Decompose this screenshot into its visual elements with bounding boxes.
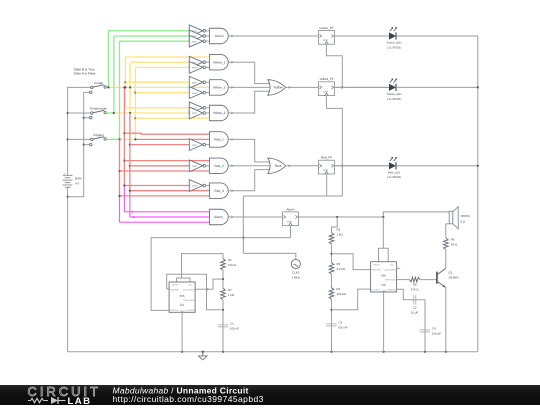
svg-text:Yellow_2: Yellow_2 bbox=[213, 86, 226, 90]
svg-text:100 kΩ: 100 kΩ bbox=[337, 292, 347, 296]
resistor R3 3.3k bbox=[329, 263, 334, 275]
wire: R7 node dogleg to U1 discharge bbox=[207, 279, 224, 289]
svg-text:R3: R3 bbox=[337, 262, 341, 266]
svg-text:R1: R1 bbox=[228, 258, 232, 262]
AND gate Red_2 bbox=[210, 158, 229, 174]
OR gate Red bbox=[268, 158, 286, 174]
pin arrows bbox=[231, 35, 234, 38]
svg-text:Red_LED: Red_LED bbox=[388, 170, 400, 174]
svg-text:U1: U1 bbox=[180, 303, 184, 307]
wire: Oxygen row bbox=[106, 138, 119, 140]
svg-text:C1: C1 bbox=[230, 321, 234, 325]
wire: Red_2 out bbox=[228, 165, 269, 167]
svg-text:R6: R6 bbox=[451, 237, 455, 241]
wire: R1 feed from U1 supply bbox=[182, 254, 224, 278]
svg-text:DISCHARGE: DISCHARGE bbox=[183, 289, 196, 292]
wire: R7 to C1 bbox=[222, 300, 224, 324]
svg-text:100 nF: 100 nF bbox=[230, 326, 239, 330]
svg-text:LTL-307EE: LTL-307EE bbox=[387, 175, 401, 179]
wire: U2 supply bridge bbox=[382, 217, 384, 248]
svg-text:2N3904: 2N3904 bbox=[449, 275, 460, 279]
flip-flop Red_FF bbox=[319, 160, 335, 174]
svg-text:CLK: CLK bbox=[323, 90, 328, 93]
svg-text:9 V: 9 V bbox=[75, 181, 79, 185]
svg-text:Red_1: Red_1 bbox=[214, 138, 224, 142]
wire: R8 to Q1 base bbox=[420, 279, 437, 281]
svg-text:State A is False: State A is False bbox=[74, 72, 96, 76]
AND gate Alarm_ bbox=[210, 209, 229, 225]
svg-text:Green: Green bbox=[215, 34, 224, 38]
inverters for Yellow_1 bbox=[189, 56, 203, 68]
wire: green verticals bbox=[107, 31, 109, 88]
wire: clk net down to 555 output bbox=[242, 196, 244, 253]
svg-text:NOT: NOT bbox=[192, 81, 197, 84]
capacitor C3 500nF bbox=[326, 323, 336, 325]
wire: magenta weave to Alarm gate bbox=[123, 186, 125, 212]
wire: U2 control to C2 bbox=[397, 289, 411, 300]
switch Temperature bbox=[91, 112, 93, 114]
AND gate Yellow_2 bbox=[210, 80, 229, 96]
svg-text:100 µF: 100 µF bbox=[432, 331, 441, 335]
wire: common feeds to switches bbox=[68, 112, 91, 114]
AND gate Yellow_3 bbox=[210, 105, 229, 121]
svg-text:1 MHz: 1 MHz bbox=[292, 276, 301, 280]
svg-text:Temperature: Temperature bbox=[90, 107, 108, 111]
svg-text:LAB: LAB bbox=[68, 395, 92, 405]
wire: R6 to speaker bbox=[445, 224, 447, 238]
AND gate Red_1 bbox=[210, 132, 229, 148]
wire: FF outputs to LEDs bbox=[335, 35, 390, 37]
svg-text:Yellow_LED: Yellow_LED bbox=[387, 92, 402, 96]
svg-text:Yellow_3: Yellow_3 bbox=[213, 111, 226, 115]
wire: bottom ground rail bbox=[68, 351, 478, 353]
svg-text:C3: C3 bbox=[339, 320, 343, 324]
svg-text:OUTPUT: OUTPUT bbox=[170, 309, 179, 312]
resistor R4 100k bbox=[329, 288, 334, 300]
clock source CLK1 1MHz bbox=[243, 253, 295, 259]
rail junction dots bbox=[181, 351, 183, 353]
inverter for Red_3 bbox=[189, 180, 203, 192]
switch Oxygen bbox=[91, 138, 93, 140]
svg-text:CONTROL: CONTROL bbox=[185, 309, 196, 312]
svg-text:Yellow: Yellow bbox=[273, 86, 283, 90]
LED Red_LED bbox=[335, 165, 390, 167]
wire: Yellow_1 out bbox=[228, 62, 270, 83]
resistor R7 1k bbox=[221, 288, 226, 300]
svg-text:470 Ω: 470 Ω bbox=[411, 287, 420, 291]
svg-text:NOT: NOT bbox=[192, 144, 197, 147]
capacitor C2 10uF bbox=[413, 295, 415, 304]
inverters for Yellow_2 bbox=[189, 76, 203, 88]
svg-text:NOT: NOT bbox=[192, 185, 197, 188]
svg-text:100 Ω: 100 Ω bbox=[228, 263, 237, 267]
flip-flop Alarm bbox=[283, 212, 299, 226]
wire: yellow weave bbox=[124, 57, 126, 108]
wire: Red_3 out bbox=[228, 170, 270, 191]
svg-text:THRESHOLD: THRESHOLD bbox=[385, 279, 398, 282]
wire: Yellow_2 out bbox=[228, 86, 269, 88]
wire: R4 to C3 bbox=[331, 299, 333, 323]
wire: Red_1 out bbox=[228, 139, 270, 162]
wire: R3 to R4 bbox=[331, 274, 333, 288]
svg-text:R2: R2 bbox=[337, 228, 341, 232]
svg-text:C2: C2 bbox=[413, 306, 417, 310]
svg-text:SPKR1: SPKR1 bbox=[461, 214, 471, 218]
wire: Red_FF clk chain bbox=[326, 174, 328, 196]
IC U1 555 timer bbox=[169, 282, 195, 312]
svg-text:THRESHOLD: THRESHOLD bbox=[183, 299, 196, 302]
svg-text:39 Ω: 39 Ω bbox=[451, 242, 458, 246]
svg-text:DISCHARGE: DISCHARGE bbox=[384, 268, 397, 271]
wire: red weave bbox=[123, 87, 125, 185]
svg-text:U2: U2 bbox=[382, 283, 386, 287]
svg-text:TRIGGER: TRIGGER bbox=[371, 268, 381, 271]
speaker SPKR1 bbox=[446, 223, 449, 225]
svg-text:Alarm_: Alarm_ bbox=[214, 215, 224, 219]
flip-flop Yellow_FF bbox=[319, 82, 335, 96]
svg-text:NOT: NOT bbox=[192, 112, 197, 115]
AND gate Green bbox=[210, 28, 229, 44]
wire: U1 supply bridge bbox=[177, 278, 191, 282]
svg-text:RESET: RESET bbox=[373, 263, 380, 266]
wire: trigger feed to U2 bbox=[332, 254, 371, 270]
svg-text:R8: R8 bbox=[413, 282, 417, 286]
wire: R2 to R3 bbox=[331, 244, 333, 263]
wire: Green_FF clk bbox=[326, 44, 342, 87]
wire: U2 gnd bbox=[383, 292, 385, 352]
svg-text:Alarm: Alarm bbox=[286, 207, 295, 211]
wire: C4 to rail bbox=[424, 323, 426, 352]
wire: switch return bus bbox=[68, 92, 84, 196]
svg-text:1 kΩ: 1 kΩ bbox=[228, 293, 235, 297]
svg-text:CLK: CLK bbox=[323, 169, 328, 172]
capacitor C4 100uF bbox=[420, 329, 430, 331]
wire: C1 to rail bbox=[222, 321, 224, 352]
wire: C3 to rail bbox=[331, 321, 333, 352]
svg-text:Yellow_FF: Yellow_FF bbox=[319, 77, 333, 81]
wire: C2 to C4 bbox=[417, 300, 425, 329]
wire: collector to R6 bbox=[445, 250, 447, 269]
wire: battery negative to ground rail bbox=[67, 187, 69, 351]
wire: U2 threshold to R8 bbox=[397, 279, 410, 281]
svg-text:NOT: NOT bbox=[192, 67, 197, 70]
wire: U2 output feed bbox=[332, 289, 371, 310]
wire: trigger-threshold loop for U1 bbox=[167, 274, 223, 310]
svg-text:Yellow_1: Yellow_1 bbox=[213, 60, 226, 64]
wire: U1 discharge stub bbox=[195, 288, 207, 290]
inverters for Yellow_3 bbox=[189, 102, 203, 114]
svg-text:Q1: Q1 bbox=[449, 270, 453, 274]
svg-text:Red_2: Red_2 bbox=[214, 164, 224, 168]
LED Green_LED bbox=[335, 35, 390, 37]
resistor R6 39 bbox=[444, 238, 449, 250]
IC U2 555 timer bbox=[371, 262, 397, 292]
wire: U1 output to Alarm FF clk bbox=[151, 237, 290, 239]
wire: green horizontals to NOT gates bbox=[108, 30, 189, 32]
svg-text:R7: R7 bbox=[228, 288, 232, 292]
svg-text:OUTPUT: OUTPUT bbox=[372, 289, 381, 292]
wire: emitter to rail bbox=[445, 288, 447, 352]
wire: Green AND to Green_FF bbox=[228, 35, 318, 37]
svg-text:Cough: Cough bbox=[94, 81, 103, 85]
svg-text:NOT: NOT bbox=[192, 40, 197, 43]
svg-text:Green_LED: Green_LED bbox=[387, 41, 402, 45]
LED Yellow_LED bbox=[335, 86, 390, 88]
svg-text:CONTROL: CONTROL bbox=[387, 289, 398, 292]
resistor R2 1k bbox=[329, 233, 334, 245]
svg-text:CLK: CLK bbox=[323, 39, 328, 42]
battery BAT0 9V bbox=[63, 174, 73, 176]
wire: R1 to R7 bbox=[222, 270, 224, 288]
svg-text:CLK1: CLK1 bbox=[292, 271, 300, 275]
svg-text:VCC: VCC bbox=[390, 263, 395, 266]
svg-text:C4: C4 bbox=[432, 326, 436, 330]
switch Cough bbox=[91, 86, 93, 88]
OR gate Yellow bbox=[268, 80, 286, 96]
wire: Cough row bbox=[106, 86, 108, 88]
svg-text:LTL-307EE: LTL-307EE bbox=[387, 97, 401, 101]
svg-text:VCC: VCC bbox=[188, 284, 193, 287]
wire: Red OR to Red_FF bbox=[285, 165, 318, 167]
svg-text:R4: R4 bbox=[337, 287, 341, 291]
svg-text:Green_FF: Green_FF bbox=[319, 26, 333, 30]
svg-text:Oxygen: Oxygen bbox=[93, 133, 104, 137]
inverter cluster for Green gate bbox=[189, 25, 203, 37]
inverter for Red_2 bbox=[189, 160, 203, 172]
wire: LED cathode bus bbox=[477, 36, 479, 352]
svg-text:10 µF: 10 µF bbox=[411, 311, 419, 315]
svg-text:LTL-307EE: LTL-307EE bbox=[387, 45, 401, 49]
svg-text:Red: Red bbox=[275, 164, 281, 168]
svg-text:TRIGGER: TRIGGER bbox=[170, 289, 180, 292]
svg-text:http://circuitlab.com/cu399745: http://circuitlab.com/cu399745apbd3 bbox=[113, 394, 264, 404]
flip-flop Green_FF bbox=[319, 30, 335, 44]
svg-text:CLK: CLK bbox=[287, 221, 292, 224]
resistor R8 470 bbox=[409, 277, 420, 282]
wire: battery positive bus bbox=[68, 87, 91, 175]
svg-text:NOT: NOT bbox=[192, 165, 197, 168]
inverter for Red_1 bbox=[189, 139, 203, 151]
ground bbox=[202, 352, 204, 356]
wire: unused throw stubs bbox=[84, 91, 90, 93]
transistor Q1 2N3904 bbox=[436, 272, 438, 284]
AND gate Red_3 bbox=[210, 183, 229, 199]
capacitor C1 100nF bbox=[218, 324, 228, 326]
wire: Yellow OR to Yellow_FF bbox=[285, 86, 318, 88]
wire: Temperature row bbox=[106, 112, 113, 114]
svg-text:NOT: NOT bbox=[192, 92, 197, 95]
svg-text:1 kΩ: 1 kΩ bbox=[337, 233, 344, 237]
wire: Yellow_3 out bbox=[228, 91, 270, 113]
svg-text:Red_3: Red_3 bbox=[214, 189, 224, 193]
svg-text:500 nF: 500 nF bbox=[339, 325, 348, 329]
svg-text:555: 555 bbox=[180, 294, 185, 298]
wire: Yellow_FF clk bbox=[326, 96, 342, 166]
svg-text:3.3 kΩ: 3.3 kΩ bbox=[337, 267, 346, 271]
svg-text:RESET: RESET bbox=[172, 284, 179, 287]
resistor R1 100 bbox=[221, 259, 226, 271]
wire: jog from alarm net to R2 bbox=[332, 217, 338, 233]
wire: U1 gnd to rail bbox=[181, 312, 183, 351]
svg-text:BAT0: BAT0 bbox=[75, 176, 82, 180]
wire: Alarm FF output net bbox=[299, 216, 384, 218]
svg-text:555: 555 bbox=[381, 274, 386, 278]
svg-text:Red_FF: Red_FF bbox=[321, 156, 332, 160]
AND gate Yellow_1 bbox=[210, 54, 229, 69]
wire: Alarm gate to Alarm FF bbox=[228, 216, 282, 218]
wire: U2 discharge stub bbox=[397, 267, 401, 269]
